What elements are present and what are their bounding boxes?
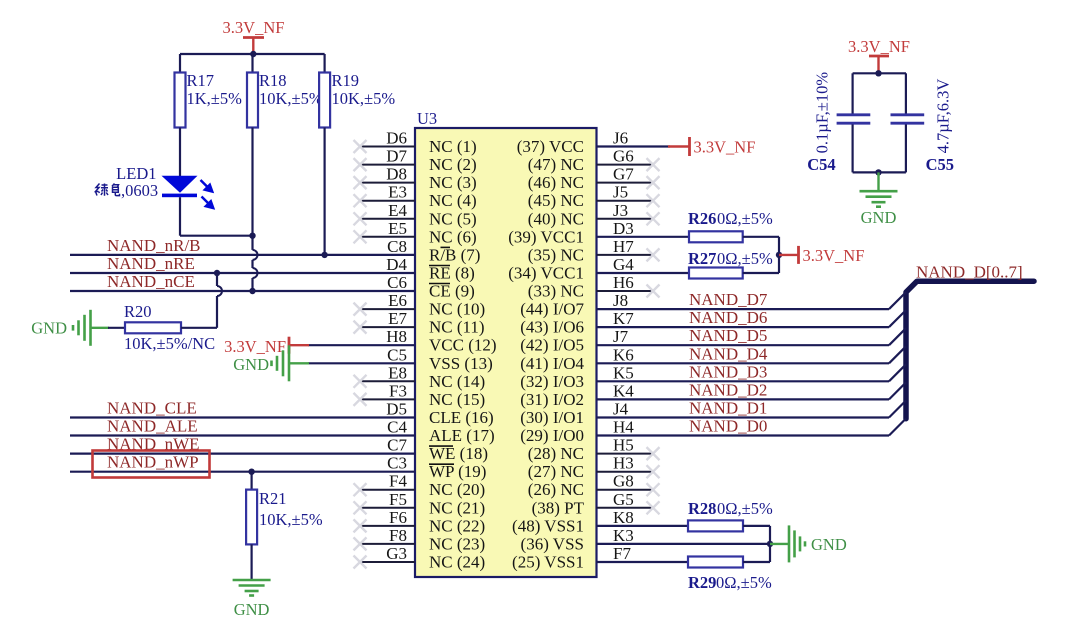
svg-text:NAND_nWP: NAND_nWP bbox=[107, 453, 199, 472]
svg-text:(30) I/O1: (30) I/O1 bbox=[520, 408, 584, 427]
svg-text:H3: H3 bbox=[613, 454, 634, 473]
junction R19/NAND_nR/B bbox=[321, 252, 327, 258]
resistor R28 bbox=[597, 499, 773, 531]
svg-text:D3: D3 bbox=[613, 219, 634, 238]
svg-text:GND: GND bbox=[234, 600, 270, 619]
svg-text:NC (4): NC (4) bbox=[429, 191, 477, 210]
svg-text:NAND_CLE: NAND_CLE bbox=[107, 399, 197, 418]
svg-text:R20: R20 bbox=[124, 302, 152, 321]
svg-text:(35) NC: (35) NC bbox=[528, 245, 584, 264]
svg-text:0Ω,±5%: 0Ω,±5% bbox=[717, 499, 773, 518]
pin WE (18) / C7 (left) bbox=[387, 436, 488, 464]
svg-text:(40) NC: (40) NC bbox=[528, 209, 584, 228]
svg-text:NAND_D6: NAND_D6 bbox=[689, 308, 767, 327]
svg-text:R28: R28 bbox=[688, 499, 716, 518]
svg-text:H7: H7 bbox=[613, 237, 634, 256]
svg-text:E4: E4 bbox=[388, 201, 407, 220]
svg-text:(39) VCC1: (39) VCC1 bbox=[508, 227, 584, 246]
pin (45) NC / J5 (right) bbox=[528, 183, 660, 211]
pin (43) I/O6 / K7 (right) bbox=[520, 309, 634, 337]
svg-text:NC (24): NC (24) bbox=[429, 553, 485, 572]
pin (32) I/O3 / K5 (right) bbox=[520, 363, 634, 391]
pin NC (3) / D8 (left) bbox=[354, 165, 477, 193]
svg-text:R21: R21 bbox=[259, 489, 287, 508]
svg-text:J5: J5 bbox=[613, 183, 628, 202]
pin RE (8) / D4 (left) bbox=[386, 255, 475, 283]
junction top rail bbox=[250, 51, 256, 57]
wire top rail bbox=[180, 53, 325, 55]
svg-text:NAND_D2: NAND_D2 bbox=[689, 380, 767, 399]
svg-text:D6: D6 bbox=[386, 129, 407, 148]
pin (27) NC / H3 (right) bbox=[528, 454, 660, 482]
pin VCC (12) / H8 (left) bbox=[386, 327, 496, 355]
svg-text:(48) VSS1: (48) VSS1 bbox=[512, 516, 584, 535]
pin (44) I/O7 / J8 (right) bbox=[520, 291, 628, 319]
wire net NAND_nR/B bbox=[70, 236, 415, 255]
svg-text:NAND_nCE: NAND_nCE bbox=[107, 272, 195, 291]
svg-text:RE (8): RE (8) bbox=[429, 264, 475, 283]
svg-text:E5: E5 bbox=[388, 219, 407, 238]
svg-text:R17: R17 bbox=[187, 71, 215, 90]
svg-text:0Ω,±5%: 0Ω,±5% bbox=[716, 573, 772, 592]
svg-text:J7: J7 bbox=[613, 327, 629, 346]
svg-text:(46) NC: (46) NC bbox=[528, 173, 584, 192]
power 3.3V_NF (top rail) bbox=[223, 18, 285, 54]
pin NC (6) / E5 (left) bbox=[354, 219, 477, 247]
wire net NAND_nCE bbox=[70, 272, 415, 291]
svg-text:NC (2): NC (2) bbox=[429, 155, 477, 174]
svg-text:H4: H4 bbox=[613, 418, 634, 437]
svg-text:3.3V_NF: 3.3V_NF bbox=[848, 37, 910, 56]
svg-text:3.3V_NF: 3.3V_NF bbox=[694, 138, 756, 157]
ground at caps bbox=[860, 172, 898, 227]
wire R19 down to NAND_nR/B bbox=[324, 128, 326, 255]
pin (47) NC / G6 (right) bbox=[528, 147, 660, 175]
svg-text:NAND_D0: NAND_D0 bbox=[689, 417, 767, 436]
IC U3 body bbox=[415, 109, 597, 577]
junction LED/R18 bbox=[249, 233, 255, 239]
power 3.3V_NF at J6 bbox=[668, 137, 755, 157]
wire R26/R27 to junction bbox=[743, 237, 779, 273]
svg-text:D4: D4 bbox=[386, 255, 407, 274]
pin (29) I/O0 / H4 (right) bbox=[520, 418, 634, 446]
svg-text:(45) NC: (45) NC bbox=[528, 191, 584, 210]
pin (30) I/O1 / J4 (right) bbox=[520, 400, 628, 428]
svg-text:NAND_D4: NAND_D4 bbox=[689, 344, 768, 363]
wire net NAND_D4 bbox=[597, 344, 907, 363]
ground at R21 bbox=[233, 580, 271, 619]
pin (25) VSS1 / F7 (right) bbox=[512, 544, 631, 572]
wire net NAND_D0 bbox=[597, 417, 907, 436]
svg-text:R27: R27 bbox=[688, 249, 716, 268]
resistor R20 bbox=[108, 302, 215, 353]
svg-text:WP (19): WP (19) bbox=[429, 462, 486, 481]
wire H8 to 3.3V_NF bbox=[308, 344, 415, 346]
highlight box on NAND_nWP bbox=[93, 451, 210, 478]
power 3.3V_NF (caps) bbox=[848, 37, 910, 73]
svg-text:E6: E6 bbox=[388, 291, 407, 310]
wire net NAND_D1 bbox=[597, 399, 907, 418]
wire net NAND_D3 bbox=[597, 362, 907, 381]
wire R18 down to NAND_nCE (hops) bbox=[253, 128, 258, 292]
svg-text:D7: D7 bbox=[386, 147, 407, 166]
svg-text:(37) VCC: (37) VCC bbox=[517, 137, 584, 156]
pin NC (24) / G3 (left) bbox=[354, 544, 486, 572]
svg-text:J6: J6 bbox=[613, 129, 628, 148]
svg-text:0.1µF,±10%: 0.1µF,±10% bbox=[813, 72, 832, 154]
svg-text:C55: C55 bbox=[926, 155, 954, 174]
ground at R20 bbox=[31, 310, 109, 346]
svg-text:C8: C8 bbox=[387, 237, 407, 256]
svg-text:VSS (13): VSS (13) bbox=[429, 354, 493, 373]
svg-text:(38) PT: (38) PT bbox=[532, 498, 585, 517]
ground at pin C5 bbox=[233, 345, 309, 381]
svg-text:H6: H6 bbox=[613, 273, 634, 292]
svg-text:10K,±5%/NC: 10K,±5%/NC bbox=[124, 334, 215, 353]
svg-text:G6: G6 bbox=[613, 147, 634, 166]
pin R/B (7) / C8 (left) bbox=[387, 237, 480, 265]
pin (26) NC / G8 (right) bbox=[528, 472, 660, 500]
pin NC (1) / D6 (left) bbox=[354, 129, 477, 157]
svg-text:C6: C6 bbox=[387, 273, 407, 292]
svg-text:NAND_D3: NAND_D3 bbox=[689, 362, 767, 381]
svg-text:H8: H8 bbox=[386, 327, 407, 346]
svg-text:H5: H5 bbox=[613, 436, 634, 455]
junction R20/NAND_nRE bbox=[214, 270, 220, 276]
svg-text:NC (14): NC (14) bbox=[429, 372, 485, 391]
wire net NAND_D2 bbox=[597, 380, 907, 399]
resistor R27 bbox=[597, 249, 773, 279]
pin NC (4) / E3 (left) bbox=[354, 183, 477, 211]
pin (35) NC / H7 (right) bbox=[528, 237, 660, 265]
pin (42) I/O5 / J7 (right) bbox=[520, 327, 628, 355]
svg-text:(27) NC: (27) NC bbox=[528, 462, 584, 481]
svg-text:ALE (17): ALE (17) bbox=[429, 426, 495, 445]
svg-text:GND: GND bbox=[861, 208, 897, 227]
svg-text:E8: E8 bbox=[388, 363, 407, 382]
label 绿色,0603 (hanzi drawn) bbox=[96, 181, 159, 200]
svg-text:NAND_nR/B: NAND_nR/B bbox=[107, 236, 201, 255]
svg-text:J8: J8 bbox=[613, 291, 628, 310]
svg-text:C54: C54 bbox=[807, 155, 835, 174]
pin (33) NC / H6 (right) bbox=[528, 273, 660, 301]
svg-text:3.3V_NF: 3.3V_NF bbox=[803, 246, 865, 265]
pin VSS (13) / C5 (left) bbox=[387, 345, 493, 373]
svg-text:K5: K5 bbox=[613, 363, 634, 382]
svg-text:0Ω,±5%: 0Ω,±5% bbox=[717, 249, 773, 268]
svg-text:NAND_D7: NAND_D7 bbox=[689, 290, 768, 309]
svg-text:10K,±5%: 10K,±5% bbox=[259, 89, 323, 108]
svg-text:WE (18): WE (18) bbox=[429, 444, 488, 463]
svg-text:4.7µF,6.3V: 4.7µF,6.3V bbox=[934, 79, 953, 154]
wire net NAND_D7 bbox=[597, 290, 907, 309]
pin CLE (16) / D5 (left) bbox=[386, 400, 493, 428]
svg-text:G8: G8 bbox=[613, 472, 634, 491]
pin (28) NC / H5 (right) bbox=[528, 436, 660, 464]
junction cap top bbox=[875, 70, 881, 76]
wire net NAND_ALE bbox=[70, 417, 415, 436]
svg-text:NC (15): NC (15) bbox=[429, 390, 485, 409]
svg-text:(33) NC: (33) NC bbox=[528, 282, 584, 301]
svg-text:K7: K7 bbox=[613, 309, 634, 328]
svg-text:(47) NC: (47) NC bbox=[528, 155, 584, 174]
pin (37) VCC / J6 (right) bbox=[517, 129, 628, 157]
pin NC (23) / F8 (left) bbox=[354, 526, 486, 554]
svg-text:G3: G3 bbox=[386, 544, 407, 563]
svg-text:K6: K6 bbox=[613, 345, 634, 364]
svg-text:F8: F8 bbox=[389, 526, 407, 545]
svg-text:VCC (12): VCC (12) bbox=[429, 336, 497, 355]
svg-text:R29: R29 bbox=[688, 573, 716, 592]
svg-text:(42) I/O5: (42) I/O5 bbox=[520, 336, 584, 355]
pin (40) NC / J3 (right) bbox=[528, 201, 660, 229]
bus NAND_D[0..7] bbox=[906, 263, 1034, 419]
svg-text:NC (6): NC (6) bbox=[429, 227, 477, 246]
svg-text:3.3V_NF: 3.3V_NF bbox=[223, 18, 285, 37]
svg-text:E3: E3 bbox=[388, 183, 407, 202]
wire R20 up to NAND_nRE (hop over nCE) bbox=[181, 273, 222, 328]
svg-text:GND: GND bbox=[233, 355, 269, 374]
svg-text:K4: K4 bbox=[613, 381, 634, 400]
wire C5 to GND bbox=[308, 362, 415, 364]
junction R18/NAND_nCE bbox=[249, 288, 255, 294]
wire cap top rail bbox=[853, 72, 906, 74]
svg-text:NC (20): NC (20) bbox=[429, 480, 485, 499]
pin (41) I/O4 / K6 (right) bbox=[520, 345, 634, 373]
pin NC (21) / F5 (left) bbox=[354, 490, 486, 518]
svg-text:C3: C3 bbox=[387, 454, 407, 473]
svg-text:1K,±5%: 1K,±5% bbox=[187, 89, 243, 108]
svg-text:(43) I/O6: (43) I/O6 bbox=[520, 318, 584, 337]
pin NC (5) / E4 (left) bbox=[354, 201, 477, 229]
svg-text:GND: GND bbox=[31, 319, 67, 338]
svg-text:NC (3): NC (3) bbox=[429, 173, 477, 192]
junction cap bottom bbox=[875, 169, 881, 175]
svg-text:D8: D8 bbox=[386, 165, 407, 184]
resistor R18 bbox=[247, 54, 323, 128]
svg-text:NC (23): NC (23) bbox=[429, 534, 485, 553]
svg-text:(29) I/O0: (29) I/O0 bbox=[520, 426, 584, 445]
svg-text:(44) I/O7: (44) I/O7 bbox=[520, 300, 584, 319]
svg-text:J4: J4 bbox=[613, 400, 629, 419]
resistor R26 bbox=[597, 209, 773, 242]
wire net NAND_nWE bbox=[70, 435, 415, 454]
svg-text:3.3V_NF: 3.3V_NF bbox=[224, 337, 286, 356]
pin CE (9) / C6 (left) bbox=[387, 273, 475, 301]
svg-text:G4: G4 bbox=[613, 255, 634, 274]
power 3.3V_NF at R26/R27 bbox=[779, 246, 864, 265]
svg-text:(41) I/O4: (41) I/O4 bbox=[520, 354, 584, 373]
junction R26/R27 bbox=[776, 252, 782, 258]
resistor R17 bbox=[175, 54, 243, 176]
svg-text:NAND_D[0..7]: NAND_D[0..7] bbox=[916, 263, 1023, 282]
svg-text:CE (9): CE (9) bbox=[429, 282, 475, 301]
pin (34) VCC1 / G4 (right) bbox=[508, 255, 634, 283]
wire LED cathode to R18 column bbox=[180, 197, 253, 236]
pin (48) VSS1 / K8 (right) bbox=[512, 508, 634, 536]
svg-text:(26) NC: (26) NC bbox=[528, 480, 584, 499]
pin NC (15) / F3 (left) bbox=[354, 381, 486, 409]
LED LED1 bbox=[116, 164, 213, 208]
svg-text:F4: F4 bbox=[389, 472, 407, 491]
wire net NAND_CLE bbox=[70, 399, 415, 418]
wire net NAND_D5 bbox=[597, 326, 907, 345]
svg-text:G5: G5 bbox=[613, 490, 634, 509]
pin NC (14) / E8 (left) bbox=[354, 363, 486, 391]
svg-text:(31) I/O2: (31) I/O2 bbox=[520, 390, 584, 409]
svg-text:NC (1): NC (1) bbox=[429, 137, 477, 156]
svg-text:F6: F6 bbox=[389, 508, 407, 527]
svg-text:R18: R18 bbox=[259, 71, 287, 90]
resistor R19 bbox=[319, 54, 395, 128]
svg-text:F7: F7 bbox=[613, 544, 631, 563]
svg-text:C7: C7 bbox=[387, 436, 407, 455]
ground at K3 bbox=[770, 525, 847, 562]
svg-text:NAND_ALE: NAND_ALE bbox=[107, 417, 198, 436]
pin (31) I/O2 / K4 (right) bbox=[520, 381, 634, 409]
pin NC (2) / D7 (left) bbox=[354, 147, 477, 175]
svg-text:G7: G7 bbox=[613, 165, 634, 184]
resistor R29 bbox=[597, 557, 772, 593]
svg-text:GND: GND bbox=[811, 535, 847, 554]
svg-text:0Ω,±5%: 0Ω,±5% bbox=[717, 209, 773, 228]
svg-text:(32) I/O3: (32) I/O3 bbox=[520, 372, 584, 391]
pin NC (11) / E7 (left) bbox=[354, 309, 485, 337]
svg-text:K8: K8 bbox=[613, 508, 634, 527]
pin (38) PT / G5 (right) bbox=[532, 490, 660, 518]
capacitor C54 bbox=[807, 72, 870, 174]
svg-text:D5: D5 bbox=[386, 400, 407, 419]
pin (39) VCC1 / D3 (right) bbox=[508, 219, 634, 247]
junction R28/R29/K3 bbox=[767, 541, 773, 547]
wire net NAND_nWP bbox=[70, 453, 415, 472]
resistor R21 bbox=[246, 472, 323, 580]
svg-text:NAND_D1: NAND_D1 bbox=[689, 399, 767, 418]
svg-text:10K,±5%: 10K,±5% bbox=[332, 89, 396, 108]
svg-text:NC (21): NC (21) bbox=[429, 498, 485, 517]
svg-text:NAND_nRE: NAND_nRE bbox=[107, 254, 195, 273]
power 3.3V_NF at pin H8 bbox=[224, 337, 309, 357]
svg-text:R19: R19 bbox=[332, 71, 360, 90]
svg-text:(25) VSS1: (25) VSS1 bbox=[512, 553, 584, 572]
pin ALE (17) / C4 (left) bbox=[387, 418, 494, 446]
svg-text:(28) NC: (28) NC bbox=[528, 444, 584, 463]
wire net NAND_nRE bbox=[70, 254, 415, 273]
svg-text:NAND_D5: NAND_D5 bbox=[689, 326, 767, 345]
svg-text:NC (11): NC (11) bbox=[429, 318, 485, 337]
pin WP (19) / C3 (left) bbox=[387, 454, 486, 482]
svg-text:R26: R26 bbox=[688, 209, 716, 228]
pin (36) VSS / K3 (right) bbox=[521, 526, 634, 554]
svg-text:CLE (16): CLE (16) bbox=[429, 408, 494, 427]
capacitor C55 bbox=[891, 73, 955, 174]
svg-text:(34) VCC1: (34) VCC1 bbox=[508, 264, 584, 283]
svg-text:U3: U3 bbox=[417, 109, 437, 128]
junction R21/NAND_nWP bbox=[248, 469, 254, 475]
pin NC (20) / F4 (left) bbox=[354, 472, 486, 500]
pin NC (10) / E6 (left) bbox=[354, 291, 486, 319]
wire K3 to junction bbox=[597, 526, 771, 562]
svg-text:F3: F3 bbox=[389, 381, 407, 400]
wire cap bottom rail bbox=[853, 171, 906, 173]
pin (46) NC / G7 (right) bbox=[528, 165, 660, 193]
svg-text:10K,±5%: 10K,±5% bbox=[259, 510, 323, 529]
svg-text:C5: C5 bbox=[387, 345, 407, 364]
svg-text:C4: C4 bbox=[387, 418, 407, 437]
svg-text:NC (10): NC (10) bbox=[429, 300, 485, 319]
svg-text:R/B (7): R/B (7) bbox=[429, 245, 480, 264]
svg-text:NC (22): NC (22) bbox=[429, 516, 485, 535]
svg-text:,0603: ,0603 bbox=[121, 181, 158, 200]
svg-text:F5: F5 bbox=[389, 490, 407, 509]
svg-text:J3: J3 bbox=[613, 201, 628, 220]
pin NC (22) / F6 (left) bbox=[354, 508, 486, 536]
svg-text:NC (5): NC (5) bbox=[429, 209, 477, 228]
svg-text:E7: E7 bbox=[388, 309, 407, 328]
svg-text:(36) VSS: (36) VSS bbox=[521, 534, 584, 553]
wire net NAND_D6 bbox=[597, 308, 907, 327]
wire J6 to 3.3V_NF bbox=[597, 145, 671, 147]
svg-text:K3: K3 bbox=[613, 526, 634, 545]
